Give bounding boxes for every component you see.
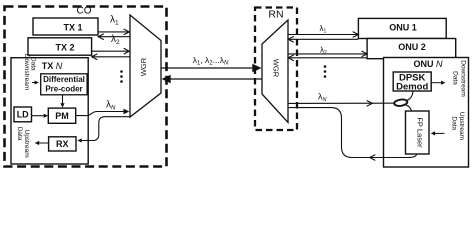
svg-text:Data: Data	[30, 57, 37, 71]
wire LD to PM	[32, 114, 49, 118]
svg-text:Data: Data	[16, 127, 23, 141]
RN label	[268, 9, 283, 21]
label lambda 2 (RN)	[320, 45, 327, 56]
svg-text:TX N: TX N	[42, 61, 63, 71]
wire TX2 to WGR (lambda 2 downstream)	[92, 48, 130, 54]
label Upstream Data (CO)	[16, 127, 30, 158]
wire fiber downstream CO to RN	[161, 64, 262, 73]
CO dashed box	[5, 7, 167, 167]
label lambda1,lambda2...lambdaN (fiber)	[193, 55, 229, 67]
WGR (RN)	[262, 20, 288, 123]
wire ONU2 to WGR (lambda 2 upstream)	[288, 55, 367, 61]
box DPSK Demod	[393, 72, 431, 93]
box TX 1	[33, 18, 98, 35]
dots (RN lambdas)	[324, 65, 327, 78]
wire RX to Upstream Data	[35, 141, 49, 145]
wire coupler to FP laser	[405, 105, 412, 112]
wire WGR to TX2 (lambda 2 upstream)	[92, 54, 130, 60]
svg-text:Differential: Differential	[43, 75, 85, 84]
coupler	[394, 99, 408, 107]
RN dashed box	[255, 8, 297, 131]
svg-text:Upstream: Upstream	[458, 112, 465, 140]
svg-text:Upstream: Upstream	[23, 130, 30, 158]
svg-text:ONU 2: ONU 2	[398, 42, 426, 52]
box PM	[48, 108, 75, 123]
label lambda 1 (RN)	[320, 24, 327, 35]
box RX	[49, 137, 76, 151]
box FP Laser	[406, 111, 430, 154]
wire FP laser to WGR (lambda N upstream)	[289, 108, 417, 161]
svg-text:LD: LD	[17, 110, 29, 120]
box ONU 1	[358, 18, 446, 38]
wire PM to WGR (lambda N)	[76, 109, 130, 116]
label lambda N (CO)	[106, 99, 116, 111]
wire ONU1 to WGR (lambda 1 upstream)	[288, 36, 358, 42]
wire WGR to RX	[77, 117, 129, 143]
wire WGR to ONU2 (lambda 2 downstream)	[288, 51, 367, 57]
svg-text:WGR: WGR	[272, 59, 281, 78]
svg-text:RX: RX	[56, 139, 69, 149]
wire fiber upstream RN to CO	[162, 75, 263, 84]
label Downstream Data (TX N)	[23, 54, 37, 90]
WGR (CO)	[130, 15, 161, 117]
box TX N	[11, 58, 88, 164]
wire arrow Downstream Data to pre-coder	[32, 81, 39, 85]
wire Upstream Data to FP laser	[431, 131, 445, 135]
label lambda N (RN)	[318, 92, 327, 104]
wire WGR to TX1 (lambda 1 upstream)	[98, 34, 129, 40]
svg-text:ONU 1: ONU 1	[389, 22, 417, 32]
svg-text:TX 1: TX 1	[63, 23, 82, 33]
svg-text:Downstream: Downstream	[23, 54, 30, 90]
svg-text:Pre-coder: Pre-coder	[45, 85, 82, 94]
box TX 2	[28, 38, 92, 55]
label Upstream Data (ONU)	[450, 112, 465, 140]
svg-text:Downstream: Downstream	[459, 60, 466, 96]
svg-text:TX 2: TX 2	[55, 43, 74, 53]
svg-text:PM: PM	[55, 111, 69, 121]
box Differential Pre-coder	[41, 74, 87, 95]
svg-text:RN: RN	[268, 9, 283, 21]
wire DPSK to Downstream Data	[431, 81, 445, 85]
label Downstream Data (ONU)	[451, 60, 466, 96]
wire WGR to ONU1 (lambda 1 downstream)	[288, 32, 358, 38]
box ONU N	[384, 58, 469, 168]
svg-text:CO: CO	[77, 6, 92, 17]
CO label	[77, 6, 92, 17]
svg-text:ONU N: ONU N	[414, 59, 444, 69]
wire WGR to ONU N (lambda N downstream)	[288, 101, 405, 107]
wire TX1 to WGR (lambda 1 downstream)	[98, 29, 129, 35]
svg-text:Data: Data	[451, 71, 458, 85]
wire coupler to DPSK demod	[406, 91, 414, 101]
svg-text:Demod: Demod	[396, 82, 428, 93]
svg-text:Data: Data	[450, 116, 457, 130]
svg-text:FP Laser: FP Laser	[416, 117, 425, 148]
wire pre-coder to PM	[60, 95, 64, 108]
svg-text:WGR: WGR	[139, 57, 148, 76]
dots (CO lambdas)	[120, 70, 123, 83]
box ONU 2	[367, 39, 456, 59]
label lambda 1 (CO)	[110, 15, 119, 27]
label lambda 2 (CO)	[111, 34, 120, 46]
box LD	[14, 107, 32, 122]
